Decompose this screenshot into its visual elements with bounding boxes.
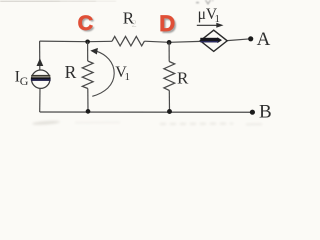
node C junction dot — [85, 40, 90, 45]
svg-text:D: D — [159, 11, 175, 36]
junction dot bottom of R1 — [86, 109, 91, 114]
resistor R3 bottom lead — [168, 90, 170, 111]
svg-text:G: G — [20, 74, 29, 88]
dependent source muV1 diamond — [200, 30, 227, 51]
svg-text:1: 1 — [215, 14, 220, 25]
current source IG dark band — [31, 75, 50, 77]
wire: left vertical upper (corner down to current source) — [39, 41, 41, 70]
node D junction dot — [167, 40, 172, 45]
scan artifact top-left streak — [0, 0, 116, 3]
V1 arc arrowhead — [90, 48, 98, 55]
wire: diamond right vertex to terminal A — [227, 39, 250, 41]
svg-text:1: 1 — [125, 72, 130, 83]
wire: top left horizontal (corner to node C) — [40, 40, 88, 43]
svg-text:2: 2 — [132, 19, 137, 30]
wire: left vertical lower (current source to bottom corner) — [39, 88, 41, 112]
junction dot bottom of R3 — [167, 109, 172, 114]
scan artifact bottom smudges — [32, 120, 262, 125]
resistor R2 (top horizontal zigzag) — [112, 36, 144, 46]
muV1 arrow above diamond — [197, 24, 218, 26]
svg-text:B: B — [259, 101, 272, 122]
svg-text:A: A — [257, 29, 271, 50]
wire: R2 right lead to node D — [144, 41, 169, 42]
current source IG arrow head — [37, 58, 44, 66]
wire: bottom horizontal (corner to terminal B) — [40, 111, 253, 113]
resistor R3 (right vertical zigzag) — [164, 62, 175, 91]
resistor R1 top lead — [87, 42, 89, 61]
diamond dark band — [200, 38, 217, 43]
voltage V1 reference arc — [92, 51, 114, 96]
svg-text:C: C — [78, 11, 94, 35]
resistor R1 bottom lead — [87, 89, 89, 112]
resistor R3 top lead — [168, 42, 170, 61]
svg-text:R: R — [65, 62, 77, 82]
scan artifact top-center text remnant — [196, 0, 214, 4]
wire: node D to diamond left vertex — [169, 40, 200, 43]
terminal A dot — [248, 36, 253, 41]
svg-text:R: R — [177, 68, 189, 87]
wire: node C to R2 left lead — [88, 40, 112, 42]
current source IG circle — [32, 70, 50, 88]
resistor R1 (left vertical zigzag) — [82, 61, 93, 89]
terminal B dot — [250, 110, 255, 115]
